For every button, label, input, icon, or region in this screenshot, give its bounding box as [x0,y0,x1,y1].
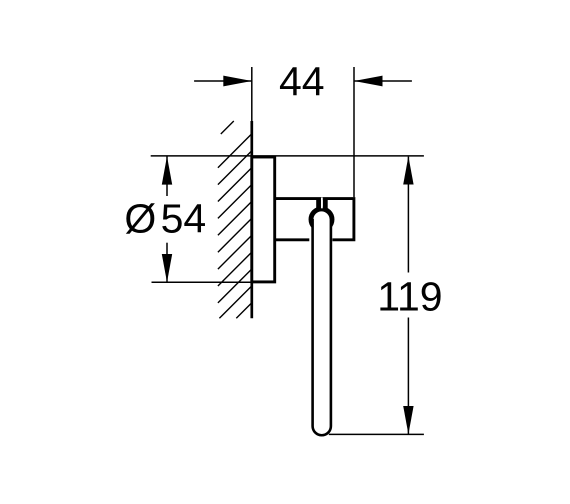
svg-text:119: 119 [377,273,442,319]
svg-text:Ø54: Ø54 [124,196,206,242]
svg-text:44: 44 [279,59,325,105]
